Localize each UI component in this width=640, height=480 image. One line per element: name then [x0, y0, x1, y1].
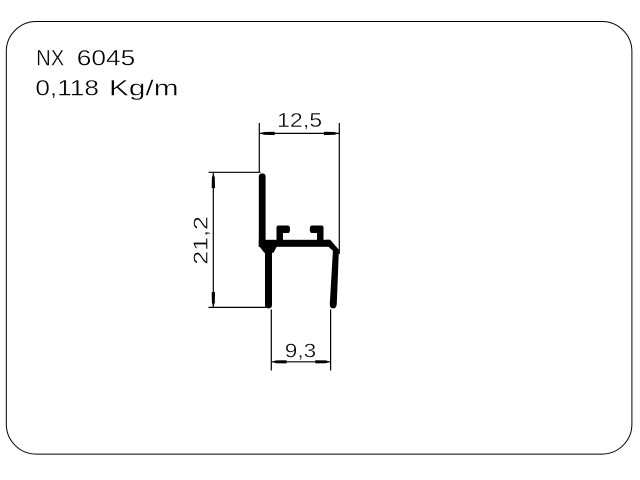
svg-text:9,3: 9,3 — [285, 340, 316, 362]
svg-text:6045: 6045 — [77, 45, 135, 70]
svg-text:0,118: 0,118 — [35, 75, 98, 100]
svg-text:12,5: 12,5 — [277, 110, 322, 132]
svg-text:NX: NX — [36, 45, 64, 70]
svg-text:21,2: 21,2 — [190, 216, 212, 265]
svg-text:Kg/m: Kg/m — [109, 75, 179, 100]
